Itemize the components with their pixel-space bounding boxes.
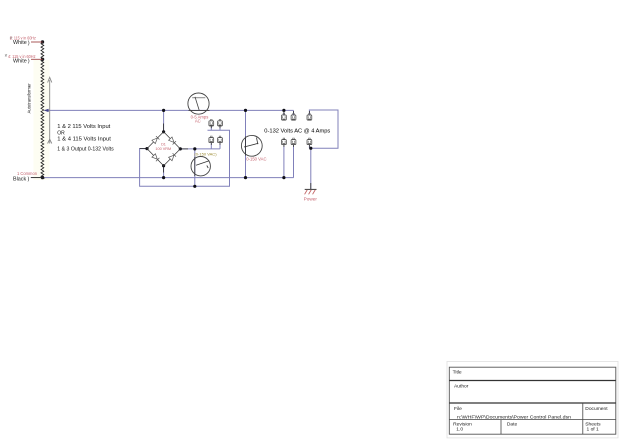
svg-text:White: White — [13, 40, 27, 46]
svg-text:Power: Power — [304, 197, 318, 202]
svg-text:n:\WHF\WP\Documents\Power Cont: n:\WHF\WP\Documents\Power Control Panel.… — [457, 414, 571, 420]
svg-text:AC: AC — [195, 119, 201, 124]
svg-text:1 & 2 115 Volts Input: 1 & 2 115 Volts Input — [57, 124, 111, 130]
svg-text:): ) — [28, 59, 30, 65]
svg-text:100 VRM: 100 VRM — [155, 147, 171, 151]
svg-text:1 & 4 115 Volts Input: 1 & 4 115 Volts Input — [57, 137, 111, 143]
svg-text:Black: Black — [13, 176, 26, 182]
svg-text:0-132 Volts AC @ 4 Amps: 0-132 Volts AC @ 4 Amps — [264, 129, 330, 135]
svg-text:): ) — [28, 40, 30, 46]
svg-text:1 Common: 1 Common — [17, 171, 38, 176]
svg-text:Revision: Revision — [453, 422, 472, 428]
svg-text:(0-150 VAC): (0-150 VAC) — [194, 152, 217, 156]
svg-text:Date: Date — [507, 422, 518, 428]
svg-text:Title: Title — [453, 370, 462, 376]
svg-text:White: White — [13, 58, 27, 64]
svg-text:1.0: 1.0 — [456, 427, 463, 433]
svg-text:File: File — [454, 406, 462, 412]
svg-text:Sheets: Sheets — [585, 422, 601, 428]
svg-text:1 of 1: 1 of 1 — [587, 427, 600, 433]
svg-text:): ) — [28, 177, 30, 183]
svg-text:Document: Document — [585, 406, 608, 412]
svg-text:Author: Author — [454, 384, 469, 390]
svg-text:1 & 3 Output 0-132 Volts: 1 & 3 Output 0-132 Volts — [57, 146, 114, 152]
svg-text:Autotransformer: Autotransformer — [27, 83, 32, 113]
svg-text:0-150 VAC: 0-150 VAC — [246, 156, 266, 161]
svg-text:D1: D1 — [161, 143, 166, 147]
